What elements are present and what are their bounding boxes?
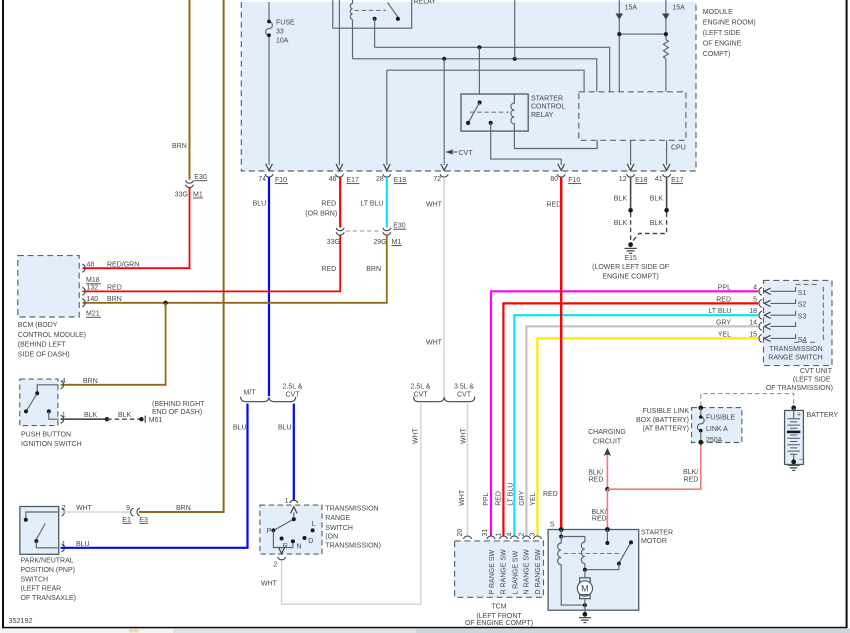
TRS pin 14 cup xyxy=(759,322,762,330)
svg-text:WHT: WHT xyxy=(76,505,93,512)
TCM box xyxy=(455,541,544,597)
svg-text:(LEFT SIDE: (LEFT SIDE xyxy=(793,377,831,384)
15A fuse right wire upper xyxy=(665,0,667,40)
wire BRN from 29G to BCM pin 140 xyxy=(83,235,387,302)
connector E30/M1 upper cup xyxy=(186,180,194,183)
TRS pin 4 cup xyxy=(759,287,762,295)
starter motor brush bottom xyxy=(580,595,591,599)
svg-text:M1: M1 xyxy=(392,239,402,246)
wire rail3 to CPU xyxy=(387,70,584,92)
starter relay coil to CPU wire xyxy=(514,131,597,149)
svg-text:LT BLU: LT BLU xyxy=(507,483,514,506)
svg-text:RED: RED xyxy=(547,201,562,208)
wire GRY xyxy=(526,326,758,536)
svg-text:TRANSMISSION: TRANSMISSION xyxy=(769,346,822,353)
svg-text:E30: E30 xyxy=(194,174,207,181)
svg-text:(LOWER LEFT SIDE OF: (LOWER LEFT SIDE OF xyxy=(592,264,669,271)
starter coil 1 xyxy=(558,537,562,565)
pin 72 arrowhead xyxy=(441,164,448,171)
wire rail3 down to pin 28 xyxy=(386,70,388,165)
TRS-on-trans R contact dot xyxy=(280,537,284,541)
junction dot rail1/starter relay xyxy=(477,45,481,49)
svg-text:PPL: PPL xyxy=(718,284,731,291)
wire BLK from push button pin 1 xyxy=(61,418,108,420)
svg-text:L: L xyxy=(312,521,316,528)
pin 28 connector cup xyxy=(383,174,391,177)
TRS-on-trans pivot dot xyxy=(292,517,296,521)
TRS S2 contact arrow xyxy=(764,300,770,306)
starter relay switch bottom dot xyxy=(466,121,470,125)
battery box xyxy=(785,410,804,464)
svg-text:E1: E1 xyxy=(122,517,131,524)
svg-text:M61: M61 xyxy=(149,417,163,424)
ENGINE ROOM MODULE box fill xyxy=(241,2,696,171)
svg-text:D: D xyxy=(308,538,313,545)
svg-text:10A: 10A xyxy=(276,38,289,45)
svg-text:15A: 15A xyxy=(625,4,638,11)
pin 72 connector cup xyxy=(440,174,448,177)
svg-text:RED: RED xyxy=(716,296,731,303)
svg-text:R RANGE SW: R RANGE SW xyxy=(500,549,507,595)
pin 46 connector cup xyxy=(335,174,343,177)
wire WHT left branch loop to TRS pin 2 xyxy=(282,404,421,605)
svg-text:ENGINE ROOM): ENGINE ROOM) xyxy=(703,19,756,26)
wire starter relay tap to pin 80 xyxy=(491,123,562,165)
push button ignition switch box xyxy=(20,379,58,426)
svg-text:352192: 352192 xyxy=(9,616,33,625)
starter coil1 bottom wire xyxy=(561,565,583,606)
battery ground symbol xyxy=(788,465,800,470)
svg-text:STARTER: STARTER xyxy=(641,529,673,536)
svg-text:S3: S3 xyxy=(798,314,807,321)
svg-text:74: 74 xyxy=(258,176,266,183)
TRS-on-trans P to pin2 wire xyxy=(273,530,293,547)
15A fuse right diode symbol xyxy=(662,14,670,20)
svg-text:(LEFT SIDE: (LEFT SIDE xyxy=(703,30,741,37)
TRS-on-trans D contact dot xyxy=(303,536,307,540)
svg-text:BLK: BLK xyxy=(118,412,132,419)
wire RED pin 80 to starter motor xyxy=(560,177,562,529)
push button switch dot left xyxy=(24,409,28,413)
wire BRN vertical to E30 connector xyxy=(189,0,191,180)
right page border xyxy=(846,0,848,628)
svg-text:PPL: PPL xyxy=(483,492,490,505)
TCM pin 4 cup xyxy=(510,536,518,539)
svg-text:IGNITION SWITCH: IGNITION SWITCH xyxy=(21,441,82,448)
svg-text:132: 132 xyxy=(87,285,99,292)
starter relay coil xyxy=(511,94,515,131)
starter plunger dot xyxy=(605,541,609,545)
fusible link fuse dots xyxy=(699,415,703,419)
push button switch dot top xyxy=(35,391,39,395)
PNP switch blade xyxy=(36,524,45,540)
wire BLU brace to TRS pin 1 xyxy=(293,404,295,500)
PNP switch wire to pin 1 xyxy=(36,541,58,548)
wire CPU to pin 41 xyxy=(666,140,668,165)
svg-text:BLU: BLU xyxy=(278,425,292,432)
fusible link fuse symbol xyxy=(697,408,704,442)
svg-text:29G: 29G xyxy=(373,239,386,246)
connector E30/M1 lower cup xyxy=(186,185,194,188)
svg-text:MOTOR: MOTOR xyxy=(641,538,667,545)
wire BRN junction down to push button pin 4 xyxy=(61,303,166,385)
junction dot right xyxy=(664,32,668,36)
push button switch wire from pin4 xyxy=(37,385,59,392)
svg-text:33G: 33G xyxy=(175,191,188,198)
svg-text:BRN: BRN xyxy=(172,143,187,150)
transmission range switch (on transmission) box xyxy=(260,505,322,554)
svg-text:FUSIBLE: FUSIBLE xyxy=(706,415,736,422)
fusible link top dot xyxy=(698,405,703,410)
dashed link between 33G and 29G xyxy=(346,230,383,232)
svg-text:RED: RED xyxy=(321,201,336,208)
M61 terminator dot xyxy=(139,417,143,421)
svg-text:E17: E17 xyxy=(346,177,359,184)
svg-text:POSITION (PNP): POSITION (PNP) xyxy=(21,567,75,574)
svg-text:WHT: WHT xyxy=(261,581,278,588)
TCM pin 20 cup xyxy=(464,536,472,539)
svg-text:TRANSMISSION): TRANSMISSION) xyxy=(325,542,381,549)
svg-text:CVT: CVT xyxy=(459,150,474,157)
battery bottom stub xyxy=(793,454,795,461)
battery thick cell line xyxy=(787,431,800,434)
svg-text:E17: E17 xyxy=(671,177,684,184)
svg-text:RELAY: RELAY xyxy=(414,0,437,5)
pin 80 arrowhead xyxy=(558,164,565,171)
CVT annotation line xyxy=(452,151,458,153)
svg-text:BLK: BLK xyxy=(614,195,628,202)
fuse 33 bottom dot xyxy=(267,33,271,37)
connector 29G lower cup xyxy=(383,232,391,235)
junction dot BRN branch xyxy=(163,301,167,305)
svg-text:LT BLU: LT BLU xyxy=(360,201,383,208)
svg-text:RANGE SWITCH: RANGE SWITCH xyxy=(768,355,822,362)
svg-text:BLU: BLU xyxy=(253,201,267,208)
svg-text:FUSE: FUSE xyxy=(276,20,295,27)
starter relay switch blade xyxy=(469,103,480,122)
svg-text:250A: 250A xyxy=(706,437,723,444)
svg-text:RANGE: RANGE xyxy=(325,515,350,522)
svg-text:BRN: BRN xyxy=(176,505,191,512)
svg-text:RED: RED xyxy=(589,476,604,483)
svg-text:(BEHIND RIGHT: (BEHIND RIGHT xyxy=(152,401,205,408)
svg-text:BLK: BLK xyxy=(84,412,98,419)
wire rail1 xyxy=(375,47,610,92)
svg-text:(ON: (ON xyxy=(325,534,338,541)
wire CPU to pin 12 xyxy=(630,140,632,165)
BLK junction dot 41 xyxy=(664,208,669,213)
starter ground symbol xyxy=(579,618,591,623)
svg-text:BRN: BRN xyxy=(366,266,381,273)
push button pin 1 cup xyxy=(61,415,64,423)
svg-text:18: 18 xyxy=(749,308,757,315)
svg-text:48: 48 xyxy=(87,261,95,268)
svg-text:2.5L &: 2.5L & xyxy=(411,384,431,391)
wire BLK/RED charging to junction xyxy=(606,456,608,490)
svg-text:ENGINE COMPT): ENGINE COMPT) xyxy=(602,274,658,281)
svg-text:72: 72 xyxy=(433,176,441,183)
M61 terminator bar xyxy=(144,416,146,423)
svg-text:S: S xyxy=(550,522,555,529)
svg-text:END OF DASH): END OF DASH) xyxy=(152,409,202,416)
svg-text:F10: F10 xyxy=(275,177,287,184)
svg-text:2: 2 xyxy=(518,533,525,537)
svg-text:D RANGE SW: D RANGE SW xyxy=(535,549,542,595)
wire BRN vertical long (from E1/E3 to top) xyxy=(139,0,224,512)
wire pin 46 feed xyxy=(338,0,340,165)
svg-text:41: 41 xyxy=(655,176,663,183)
wire RED from E30/M1 down to BCM pin 48 xyxy=(83,188,190,268)
svg-text:80: 80 xyxy=(550,176,558,183)
PNP pin 1 cup xyxy=(62,544,65,552)
svg-text:CVT: CVT xyxy=(286,391,301,398)
starter node to coil2 wire xyxy=(561,537,585,543)
svg-text:PARK/NEUTRAL: PARK/NEUTRAL xyxy=(21,558,74,565)
wire relay contact to rail1 xyxy=(374,19,376,48)
TRS pin 5 cup xyxy=(759,299,762,307)
dashed BLK left segment xyxy=(630,213,632,242)
svg-text:OF TRANSMISSION): OF TRANSMISSION) xyxy=(766,385,833,392)
svg-text:E3: E3 xyxy=(139,517,148,524)
starter motor node dot xyxy=(583,568,587,572)
ground E15 symbol xyxy=(624,248,636,253)
svg-text:2.5L &: 2.5L & xyxy=(283,384,303,391)
charging circuit up arrow xyxy=(606,449,608,457)
battery top dot xyxy=(791,405,796,410)
svg-text:12: 12 xyxy=(619,176,627,183)
CPU dashed box xyxy=(579,92,686,141)
svg-text:M/T: M/T xyxy=(244,390,257,397)
fuse 33 symbol xyxy=(266,22,273,36)
push button pin 4 cup xyxy=(61,381,64,389)
push button switch blade xyxy=(27,395,37,411)
pin 41 arrowhead xyxy=(663,164,670,171)
TRS internal dashed top xyxy=(796,284,818,286)
PNP pin 2 cup xyxy=(62,508,65,516)
starter switch dot lower xyxy=(617,562,621,566)
PNP switch dot top xyxy=(24,518,28,522)
TRS internal dashed right xyxy=(822,287,824,341)
svg-text:BRN: BRN xyxy=(83,378,98,385)
wire BLK dashed to M61 xyxy=(107,418,141,420)
svg-text:N RANGE SW: N RANGE SW xyxy=(523,549,530,595)
svg-text:WHT: WHT xyxy=(426,339,443,346)
wire WHT from PNP pin 2 to E1/E3 xyxy=(61,511,130,513)
fuse 33 wire stub xyxy=(268,2,270,21)
battery top stub xyxy=(793,408,795,419)
pin 41 connector cup xyxy=(663,174,671,177)
svg-text:COMPT): COMPT) xyxy=(703,51,731,58)
connector E3 cup xyxy=(137,508,140,516)
svg-text:31: 31 xyxy=(482,529,489,537)
svg-text:140: 140 xyxy=(87,296,99,303)
svg-text:(OR BRN): (OR BRN) xyxy=(305,210,337,217)
svg-text:RED: RED xyxy=(107,285,122,292)
svg-text:FUSIBLE LINK: FUSIBLE LINK xyxy=(642,408,689,415)
svg-text:4: 4 xyxy=(62,378,66,385)
pin 74 arrowhead xyxy=(266,164,273,171)
svg-text:BOX (BATTERY): BOX (BATTERY) xyxy=(636,417,689,424)
svg-text:15: 15 xyxy=(749,331,757,338)
svg-text:TRANSMISSION: TRANSMISSION xyxy=(325,506,378,513)
svg-text:4: 4 xyxy=(753,284,757,291)
svg-text:CHARGING: CHARGING xyxy=(588,429,626,436)
TRS S4 contact line xyxy=(771,334,796,338)
TRS internal dashed bottom xyxy=(794,341,818,343)
wire RED from 33G to BCM pin 132 xyxy=(83,235,341,291)
junction wire between fuses xyxy=(619,33,666,35)
svg-text:33G: 33G xyxy=(327,239,340,246)
wire pin72 feed xyxy=(443,59,445,165)
junction dot left xyxy=(617,32,621,36)
wire pin 74 feed from fuse xyxy=(268,36,270,165)
TCM pin 3 cup xyxy=(533,536,541,539)
pin 80 connector cup xyxy=(557,174,565,177)
push button switch dot right xyxy=(47,409,51,413)
svg-text:15A: 15A xyxy=(672,4,685,11)
svg-text:33: 33 xyxy=(276,29,284,36)
svg-text:PUSH BUTTON: PUSH BUTTON xyxy=(21,431,71,438)
svg-text:CVT: CVT xyxy=(414,391,429,398)
TRS-on-trans pin 2 cup xyxy=(278,557,286,560)
starter blkred entry dot xyxy=(605,527,610,532)
wire rail2 xyxy=(353,59,597,92)
svg-text:OF ENGINE COMPT): OF ENGINE COMPT) xyxy=(465,620,533,627)
fusible link bottom dot xyxy=(698,440,703,445)
svg-text:BRN: BRN xyxy=(107,296,122,303)
svg-text:RED: RED xyxy=(592,516,607,523)
svg-text:E15: E15 xyxy=(624,255,637,262)
svg-text:WHT: WHT xyxy=(413,427,420,444)
brace WHT split xyxy=(414,397,475,402)
junction dot rail2/coil feed xyxy=(513,57,517,61)
svg-text:(LEFT REAR: (LEFT REAR xyxy=(21,586,62,593)
BCM pin 140 cup xyxy=(82,299,85,307)
starter switch dot upper xyxy=(629,540,633,544)
15A fuse left diode symbol xyxy=(616,14,624,20)
svg-text:20: 20 xyxy=(457,529,464,537)
starter bottom node dot xyxy=(583,603,587,607)
TRS-on-trans up arrow xyxy=(291,507,297,514)
wire WHT right branch to TCM pin 20 xyxy=(467,404,469,537)
svg-text:TCM: TCM xyxy=(491,603,506,610)
dashed link fusible to battery xyxy=(701,394,794,406)
starter switch blade xyxy=(620,544,631,562)
TCM pin 2 cup xyxy=(522,536,530,539)
pin 74 connector cup xyxy=(265,174,273,177)
svg-text:L RANGE SW: L RANGE SW xyxy=(512,550,519,594)
svg-text:M21: M21 xyxy=(86,311,100,318)
starter relay switch top dot xyxy=(478,100,482,104)
relay switch blade xyxy=(388,3,398,18)
svg-text:+: + xyxy=(797,412,801,419)
svg-text:9: 9 xyxy=(126,505,130,512)
svg-text:M18: M18 xyxy=(86,277,100,284)
svg-text:CIRCUIT: CIRCUIT xyxy=(593,439,622,446)
starter relay tap dot xyxy=(489,121,493,125)
starter coil 2 xyxy=(581,542,585,564)
svg-text:28: 28 xyxy=(376,176,384,183)
svg-text:E18: E18 xyxy=(635,177,648,184)
BCM box xyxy=(18,256,79,317)
battery cells xyxy=(787,419,800,455)
CVT annotation arrow xyxy=(445,149,453,155)
svg-text:5: 5 xyxy=(753,296,757,303)
starter control relay box xyxy=(461,94,528,131)
wire PPL xyxy=(491,291,758,536)
starter ground dot xyxy=(583,612,588,617)
taskbar strip xyxy=(0,628,850,633)
svg-text:E30: E30 xyxy=(393,223,406,230)
TRS S3 contact line xyxy=(771,311,796,315)
relay dashed link xyxy=(355,9,387,11)
BLK junction dot xyxy=(105,417,109,421)
svg-text:1: 1 xyxy=(285,498,289,505)
wire BLK from pin 12 xyxy=(630,177,632,209)
push button switch wire to pin1 xyxy=(49,411,59,419)
TRS S4 contact arrow xyxy=(764,335,770,341)
svg-text:1: 1 xyxy=(62,412,66,419)
svg-text:SWITCH: SWITCH xyxy=(21,576,49,583)
relay (top, cut off) box xyxy=(333,0,412,28)
svg-text:SIDE OF DASH): SIDE OF DASH) xyxy=(18,351,70,358)
TRS S2 contact line xyxy=(771,299,796,303)
wire rail1 to starter relay switch xyxy=(478,47,480,101)
brace BLU split xyxy=(241,397,296,402)
TRS pin 15 cup xyxy=(759,334,762,342)
svg-text:2: 2 xyxy=(62,505,66,512)
PNP switch dot bottom xyxy=(34,539,38,543)
svg-text:S2: S2 xyxy=(798,302,807,309)
wire BLK from pin 41 xyxy=(666,177,668,209)
TRS-on-trans pin 1 cup xyxy=(290,500,298,503)
svg-text:CONTROL MODULE): CONTROL MODULE) xyxy=(18,332,86,339)
TRS-on-trans down arrow to pin 2 xyxy=(278,547,284,554)
svg-text:CPU: CPU xyxy=(671,144,686,151)
svg-text:2: 2 xyxy=(273,562,277,569)
starter motor brush top xyxy=(580,578,591,582)
TRS S3 contact arrow xyxy=(764,312,770,318)
15A fuse left wire xyxy=(618,0,620,92)
svg-text:BLU: BLU xyxy=(233,425,247,432)
junction dot BLK/RED xyxy=(605,487,610,492)
svg-text:CONTROL: CONTROL xyxy=(531,104,565,111)
pin 46 arrowhead xyxy=(336,164,343,171)
left page border xyxy=(2,0,4,628)
svg-text:WHT: WHT xyxy=(461,427,468,444)
TRS S1 contact arrow xyxy=(764,288,770,294)
starter motor bottom lead xyxy=(584,599,586,613)
starter motor top lead xyxy=(584,570,586,578)
TRS-on-trans blade to P xyxy=(275,520,292,530)
pin 12 arrowhead xyxy=(627,164,634,171)
svg-text:1: 1 xyxy=(495,533,502,537)
svg-text:OF ENGINE: OF ENGINE xyxy=(703,41,742,48)
junction dot rail2/pin72 xyxy=(442,57,446,61)
relay switch contact dot right xyxy=(396,17,400,21)
svg-text:BCM (BODY: BCM (BODY xyxy=(18,322,58,329)
svg-text:E18: E18 xyxy=(394,177,407,184)
svg-text:OF TRANSAXLE): OF TRANSAXLE) xyxy=(21,595,77,602)
svg-text:WHT: WHT xyxy=(459,489,466,506)
resistor lower wire to CPU xyxy=(665,59,667,92)
wire LT BLU pin 28 to 29G connector xyxy=(386,177,388,227)
TRS-on-trans P contact dot xyxy=(271,528,275,532)
starter dashed link xyxy=(564,553,621,555)
wire relay coil to rail2 xyxy=(352,19,354,58)
wire BLU pin 74 down to brace xyxy=(268,177,270,396)
svg-text:F10: F10 xyxy=(568,177,580,184)
